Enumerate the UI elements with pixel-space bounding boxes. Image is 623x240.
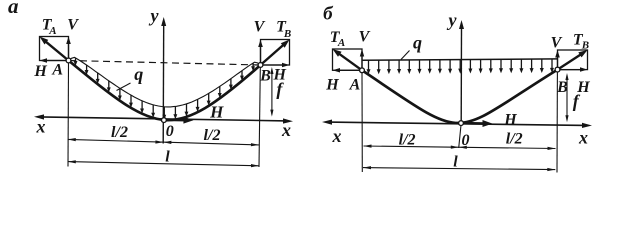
y axis (fig a) [161,17,166,144]
svg-text:y: y [447,10,458,30]
label f (fig b) [573,91,581,111]
label a (figure a) [8,0,19,18]
vertical component V at B (fig a) [258,40,263,66]
svg-text:l/2: l/2 [506,131,523,148]
svg-text:H: H [503,111,517,128]
x axis (fig b) [322,120,592,129]
svg-text:A: A [51,62,63,79]
label H at A (fig a) [33,63,47,80]
support point A (fig a) [66,58,71,63]
origin point 0 (fig a) [162,118,167,123]
label b (figure b) [323,4,334,25]
label l (fig a) [165,148,170,165]
svg-text:x: x [281,120,291,140]
cable curve (fig a) [69,61,261,121]
distributed load arrows q along cable (fig a) [74,58,256,120]
label V at A (fig b) [359,29,371,46]
horizontal tension arrow H at origin (fig a) [167,117,194,124]
origin point 0 (fig b) [459,121,464,126]
svg-text:l/2: l/2 [204,127,221,144]
svg-text:q: q [134,64,143,84]
force parallelogram rectangle at A (fig a) [40,37,69,61]
load label q with leader (fig b) [401,33,422,60]
force parallelogram rectangle at A (fig b) [333,49,363,70]
label T_A (fig a) [42,17,57,37]
dimension row l/2 l/2 (fig a) [68,138,259,146]
x axis left label (fig b) [332,126,342,146]
label H at A (fig b) [325,76,339,93]
label 0 (fig a) [166,123,174,140]
svg-text:A: A [48,25,56,37]
svg-text:H: H [209,102,224,121]
label l/2 right (fig b) [506,131,523,148]
label l/2 left (fig a) [111,124,128,141]
svg-text:0: 0 [166,123,174,140]
svg-text:q: q [413,33,422,53]
label B (fig a) [259,68,271,85]
y axis label (fig b) [447,10,458,30]
distributed load arrows q (fig b) [367,59,555,74]
horizontal component H at B (fig a) [261,63,290,67]
svg-text:б: б [323,4,334,25]
x axis (fig a) [34,114,293,123]
load label q with leader (fig a) [117,64,144,91]
extension line below A (fig a) [67,64,70,167]
cable curve (fig b) [362,70,558,123]
svg-text:V: V [359,29,371,46]
svg-text:x: x [36,117,46,137]
label H at origin (fig b) [503,111,517,128]
svg-text:l/2: l/2 [399,132,416,149]
x axis left label (fig a) [36,117,46,137]
y axis label (fig a) [149,6,160,26]
extension line below B (fig a) [259,68,260,167]
vertical component V at B (fig b) [555,50,560,70]
distributed load line (fig b) [362,59,558,60]
svg-text:l: l [165,148,170,165]
horizontal component H at B (fig b) [558,67,588,72]
label l/2 right (fig a) [204,127,221,144]
svg-text:A: A [349,76,361,93]
extension line below B (fig b) [556,73,558,173]
label H at origin (fig a) [209,102,224,121]
tension vector T_A (fig a) [40,37,69,61]
horizontal component H at A (fig b) [333,68,363,73]
svg-text:B: B [283,28,291,40]
sag dimension f line (fig a) [270,67,273,117]
tension vector T_B (fig b) [558,50,588,70]
svg-text:x: x [578,127,588,147]
svg-text:V: V [254,19,266,36]
svg-text:x: x [332,126,342,146]
svg-text:y: y [149,6,160,26]
label V at B (fig a) [254,19,266,36]
svg-text:B: B [581,40,589,52]
svg-text:B: B [556,79,568,96]
x axis right label (fig a) [281,120,291,140]
label f (fig a) [276,79,284,99]
label l/2 left (fig b) [399,132,416,149]
support point B (fig b) [555,67,560,72]
label A (fig b) [349,76,361,93]
force parallelogram rectangle at B (fig a) [261,40,290,66]
svg-text:A: A [337,37,345,49]
svg-text:a: a [8,0,19,18]
support point B (fig a) [258,63,263,68]
horizontal tension arrow H at origin (fig b) [464,120,493,127]
tension vector T_A (fig b) [333,49,363,70]
horizontal component H at A (fig a) [40,58,69,63]
label V at A (fig a) [67,17,79,34]
label H at B (fig a) [272,66,286,83]
tension vector T_B (fig a) [261,40,290,66]
svg-text:l/2: l/2 [111,124,128,141]
svg-text:H: H [33,63,47,80]
y axis (fig b) [459,20,464,148]
dimension row l (fig b) [363,166,555,171]
vertical component V at A (fig a) [66,37,71,61]
load envelope curve (fig a) [69,57,261,107]
label A (fig a) [51,62,63,79]
label V at B (fig b) [551,35,563,52]
svg-text:l: l [453,154,458,171]
extension line below A (fig b) [361,73,363,172]
svg-text:V: V [551,35,563,52]
label B (fig b) [556,79,568,96]
label H at B (fig b) [576,79,590,96]
sag dimension f line (fig b) [565,73,568,122]
label T_B (fig a) [276,19,291,40]
svg-text:H: H [325,76,339,93]
dashed chord line A to B (fig a) [69,61,261,66]
label l (fig b) [453,154,458,171]
dimension row l (fig a) [68,160,259,167]
svg-text:V: V [67,17,79,34]
svg-text:B: B [259,68,271,85]
force parallelogram rectangle at B (fig b) [558,50,588,70]
support point A (fig b) [360,68,365,73]
label T_A (fig b) [330,29,345,49]
vertical component V at A (fig b) [360,49,364,70]
x axis right label (fig b) [578,127,588,147]
dimension row l/2 l/2 (fig b) [364,145,556,151]
label 0 (fig b) [462,132,470,149]
label T_B (fig b) [573,31,589,51]
